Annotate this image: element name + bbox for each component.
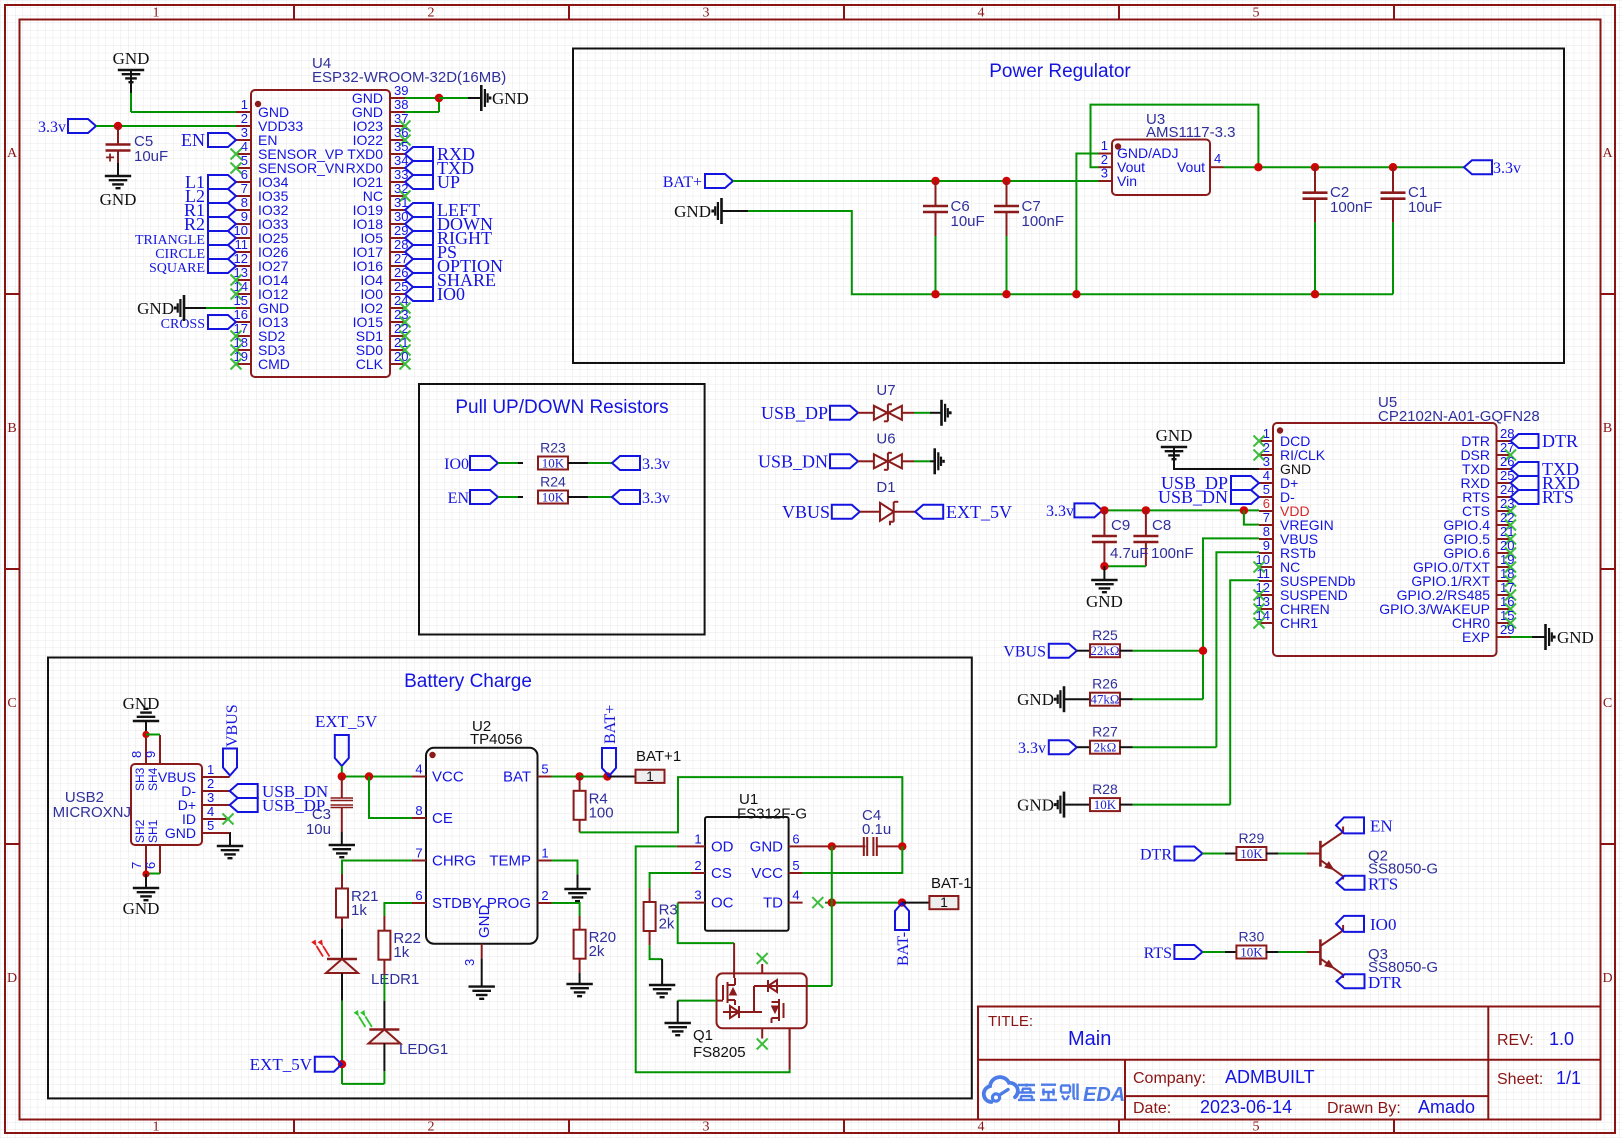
svg-text:EDA: EDA: [1083, 1084, 1125, 1106]
svg-text:6: 6: [415, 888, 422, 903]
svg-text:R30: R30: [1239, 929, 1265, 945]
svg-text:18: 18: [234, 335, 248, 350]
svg-text:R27: R27: [1092, 724, 1118, 740]
svg-text:1: 1: [1101, 138, 1108, 153]
svg-text:B: B: [7, 421, 16, 436]
svg-text:2: 2: [541, 888, 548, 903]
svg-text:5: 5: [1263, 482, 1270, 497]
svg-text:1: 1: [1263, 426, 1270, 441]
svg-text:GND: GND: [123, 899, 160, 918]
svg-text:9: 9: [241, 209, 248, 224]
svg-text:1k: 1k: [351, 902, 367, 919]
svg-text:16: 16: [234, 307, 248, 322]
svg-text:10uF: 10uF: [1408, 199, 1442, 216]
svg-text:SQUARE: SQUARE: [149, 261, 205, 276]
svg-text:R28: R28: [1092, 781, 1118, 797]
svg-text:REV:: REV:: [1497, 1032, 1534, 1049]
svg-text:10K: 10K: [1094, 797, 1117, 812]
svg-text:4: 4: [1263, 468, 1270, 483]
svg-text:2: 2: [694, 858, 701, 873]
svg-text:TD: TD: [763, 895, 783, 912]
svg-text:OD: OD: [711, 838, 734, 855]
svg-text:4: 4: [1214, 151, 1221, 166]
svg-text:B: B: [1603, 421, 1612, 436]
svg-text:USB_DN: USB_DN: [758, 451, 828, 471]
svg-text:EXP: EXP: [1462, 629, 1490, 645]
svg-text:3: 3: [241, 125, 248, 140]
svg-text:SS8050-G: SS8050-G: [1368, 861, 1438, 878]
svg-text:TITLE:: TITLE:: [988, 1013, 1033, 1030]
svg-text:1: 1: [241, 97, 248, 112]
svg-text:4: 4: [978, 6, 985, 21]
svg-text:VBUS: VBUS: [782, 502, 830, 522]
svg-text:SH1: SH1: [146, 819, 160, 843]
svg-text:8: 8: [241, 195, 248, 210]
svg-text:Drawn By:: Drawn By:: [1327, 1100, 1401, 1117]
svg-text:GND: GND: [137, 299, 174, 318]
svg-text:GND: GND: [492, 89, 529, 108]
svg-text:GND: GND: [1557, 628, 1594, 647]
svg-text:5: 5: [1253, 1120, 1260, 1135]
svg-text:Q1: Q1: [693, 1027, 713, 1044]
svg-text:100nF: 100nF: [1022, 213, 1065, 230]
svg-text:CLK: CLK: [356, 356, 384, 372]
svg-text:0.1u: 0.1u: [862, 821, 891, 838]
svg-text:D: D: [1602, 971, 1612, 986]
svg-text:U6: U6: [876, 430, 895, 447]
svg-text:EN: EN: [448, 490, 470, 507]
svg-text:7: 7: [241, 181, 248, 196]
svg-text:Battery Charge: Battery Charge: [404, 671, 532, 692]
svg-text:1: 1: [541, 846, 548, 861]
svg-text:5: 5: [207, 818, 214, 833]
svg-text:VCC: VCC: [432, 769, 464, 786]
svg-text:EXT_5V: EXT_5V: [250, 1055, 313, 1074]
svg-text:GND: GND: [165, 825, 196, 841]
svg-text:Amado: Amado: [1418, 1097, 1475, 1117]
svg-text:+: +: [105, 150, 114, 167]
svg-text:9: 9: [143, 751, 158, 758]
svg-text:EN: EN: [1370, 817, 1393, 836]
svg-text:BAT-: BAT-: [895, 932, 912, 966]
svg-text:Vout: Vout: [1177, 159, 1205, 175]
svg-text:EXT_5V: EXT_5V: [946, 502, 1012, 522]
svg-text:22kΩ: 22kΩ: [1090, 643, 1119, 658]
svg-text:19: 19: [234, 349, 248, 364]
svg-text:4: 4: [792, 888, 799, 903]
svg-text:1: 1: [646, 768, 654, 784]
svg-text:100: 100: [589, 804, 614, 821]
svg-text:3: 3: [1101, 166, 1108, 181]
svg-text:100nF: 100nF: [1330, 199, 1373, 216]
svg-text:2: 2: [428, 1120, 435, 1135]
svg-text:R25: R25: [1092, 627, 1118, 643]
svg-text:14: 14: [234, 279, 248, 294]
svg-text:EXT_5V: EXT_5V: [315, 712, 378, 731]
svg-text:USB_DP: USB_DP: [761, 403, 828, 423]
svg-text:R2: R2: [184, 214, 205, 234]
svg-text:2: 2: [1263, 440, 1270, 455]
svg-text:2k: 2k: [659, 916, 675, 933]
svg-text:10K: 10K: [1240, 945, 1263, 960]
svg-text:2k: 2k: [589, 943, 605, 960]
svg-text:3: 3: [462, 959, 477, 966]
svg-text:R23: R23: [540, 440, 566, 456]
svg-text:1k: 1k: [393, 944, 409, 961]
svg-text:2: 2: [241, 111, 248, 126]
svg-text:C9: C9: [1111, 517, 1130, 534]
svg-text:ESP32-WROOM-32D(16MB): ESP32-WROOM-32D(16MB): [312, 69, 506, 86]
svg-text:LEDG1: LEDG1: [399, 1041, 448, 1058]
svg-text:3: 3: [703, 6, 710, 21]
svg-text:GND: GND: [100, 190, 137, 209]
svg-text:11: 11: [1257, 566, 1271, 581]
svg-text:3.3v: 3.3v: [1018, 740, 1046, 757]
svg-text:39: 39: [394, 83, 408, 98]
svg-text:CE: CE: [432, 810, 453, 827]
svg-text:FS8205: FS8205: [693, 1044, 746, 1061]
svg-text:A: A: [7, 146, 18, 161]
svg-text:GND: GND: [674, 202, 711, 221]
svg-text:7: 7: [1263, 510, 1270, 525]
svg-text:6: 6: [143, 862, 158, 869]
svg-text:BAT-1: BAT-1: [931, 875, 972, 892]
svg-text:7: 7: [415, 846, 422, 861]
svg-text:TEMP: TEMP: [489, 853, 531, 870]
svg-text:5: 5: [792, 858, 799, 873]
svg-text:8: 8: [415, 803, 422, 818]
svg-text:GND: GND: [1156, 426, 1193, 445]
svg-text:Company:: Company:: [1133, 1070, 1206, 1087]
svg-text:3.3v: 3.3v: [1493, 160, 1521, 177]
svg-text:7: 7: [129, 862, 144, 869]
svg-text:VCC: VCC: [751, 865, 783, 882]
svg-text:STDBY: STDBY: [432, 895, 482, 912]
svg-text:29: 29: [1500, 622, 1514, 637]
svg-text:2: 2: [428, 6, 435, 21]
svg-text:C: C: [7, 696, 16, 711]
svg-text:CP2102N-A01-GQFN28: CP2102N-A01-GQFN28: [1378, 408, 1540, 425]
svg-text:PROG: PROG: [487, 895, 531, 912]
svg-text:EN: EN: [181, 130, 205, 150]
svg-text:Power Regulator: Power Regulator: [989, 61, 1131, 82]
svg-text:1/1: 1/1: [1556, 1068, 1581, 1088]
svg-text:MICROXNJ: MICROXNJ: [53, 804, 131, 821]
svg-text:TP4056: TP4056: [470, 731, 523, 748]
svg-text:1: 1: [694, 831, 701, 846]
svg-text:GND: GND: [1086, 592, 1123, 611]
svg-text:DTR: DTR: [1140, 847, 1172, 864]
svg-text:R29: R29: [1239, 830, 1265, 846]
svg-text:1: 1: [207, 762, 214, 777]
svg-text:1: 1: [153, 1120, 160, 1135]
svg-text:10uF: 10uF: [134, 148, 168, 165]
svg-text:10K: 10K: [542, 490, 565, 505]
svg-text:5: 5: [241, 153, 248, 168]
svg-text:1: 1: [153, 6, 160, 21]
svg-text:3.3v: 3.3v: [38, 119, 66, 136]
svg-text:10u: 10u: [306, 821, 331, 838]
svg-text:6: 6: [1263, 496, 1270, 511]
svg-text:SH3: SH3: [133, 767, 147, 791]
svg-text:Date:: Date:: [1133, 1100, 1171, 1117]
svg-text:GND: GND: [476, 905, 493, 939]
svg-text:A: A: [1602, 146, 1613, 161]
svg-text:TRIANGLE: TRIANGLE: [135, 233, 205, 248]
svg-text:10K: 10K: [1240, 846, 1263, 861]
svg-text:GND: GND: [1017, 796, 1054, 815]
svg-text:CMD: CMD: [258, 356, 290, 372]
svg-text:3.3v: 3.3v: [1046, 503, 1074, 520]
svg-text:C8: C8: [1152, 517, 1171, 534]
svg-text:3: 3: [694, 888, 701, 903]
svg-text:3.3v: 3.3v: [642, 456, 670, 473]
svg-text:ADMBUILT: ADMBUILT: [1225, 1067, 1315, 1087]
svg-text:R24: R24: [540, 474, 566, 490]
svg-text:SH2: SH2: [133, 819, 147, 843]
svg-text:BAT+: BAT+: [602, 705, 619, 744]
svg-text:Pull UP/DOWN Resistors: Pull UP/DOWN Resistors: [455, 397, 668, 418]
svg-text:CS: CS: [711, 865, 732, 882]
svg-text:CIRCLE: CIRCLE: [155, 247, 205, 262]
svg-text:SH4: SH4: [146, 767, 160, 791]
svg-text:FS312F-G: FS312F-G: [737, 806, 807, 823]
svg-text:Main: Main: [1068, 1028, 1111, 1050]
svg-text:4: 4: [978, 1120, 985, 1135]
svg-text:UP: UP: [437, 172, 460, 192]
svg-text:4: 4: [207, 804, 214, 819]
svg-text:1.0: 1.0: [1549, 1029, 1574, 1049]
svg-text:Vin: Vin: [1117, 173, 1137, 189]
svg-text:U7: U7: [876, 382, 895, 399]
svg-text:CHRG: CHRG: [432, 853, 476, 870]
svg-text:RTS: RTS: [1144, 945, 1172, 962]
svg-text:IO0: IO0: [437, 284, 465, 304]
svg-text:2023-06-14: 2023-06-14: [1200, 1097, 1292, 1117]
svg-text:DTR: DTR: [1542, 431, 1578, 451]
svg-text:6: 6: [792, 831, 799, 846]
svg-text:2: 2: [207, 776, 214, 791]
svg-text:USB_DN: USB_DN: [1158, 487, 1228, 507]
svg-text:38: 38: [394, 97, 408, 112]
svg-text:RTS: RTS: [1542, 487, 1574, 507]
svg-text:1: 1: [940, 894, 948, 910]
svg-text:BAT: BAT: [503, 769, 531, 786]
svg-text:2kΩ: 2kΩ: [1094, 740, 1117, 755]
svg-text:BAT+1: BAT+1: [636, 748, 681, 765]
svg-text:BAT+: BAT+: [663, 174, 702, 191]
svg-text:GND: GND: [123, 694, 160, 713]
svg-text:5: 5: [541, 762, 548, 777]
svg-text:C: C: [1603, 696, 1612, 711]
svg-text:GND: GND: [113, 49, 150, 68]
svg-text:3: 3: [207, 790, 214, 805]
svg-text:D1: D1: [876, 479, 895, 496]
svg-text:4.7uF: 4.7uF: [1110, 545, 1148, 562]
svg-text:AMS1117-3.3: AMS1117-3.3: [1146, 124, 1236, 141]
svg-text:3: 3: [1263, 454, 1270, 469]
svg-text:8: 8: [1263, 524, 1270, 539]
svg-text:47kΩ: 47kΩ: [1090, 692, 1119, 707]
svg-text:6: 6: [241, 167, 248, 182]
svg-text:100nF: 100nF: [1151, 545, 1194, 562]
svg-text:R26: R26: [1092, 676, 1118, 692]
svg-text:11: 11: [235, 237, 249, 252]
svg-text:9: 9: [1263, 538, 1270, 553]
svg-text:OC: OC: [711, 895, 734, 912]
svg-text:GND: GND: [1017, 690, 1054, 709]
svg-text:VBUS: VBUS: [224, 704, 241, 747]
svg-text:8: 8: [129, 751, 144, 758]
svg-text:CHR1: CHR1: [1280, 615, 1318, 631]
svg-text:IO0: IO0: [1370, 915, 1396, 934]
svg-text:D: D: [7, 971, 17, 986]
svg-text:4: 4: [415, 762, 422, 777]
svg-text:10uF: 10uF: [951, 213, 985, 230]
svg-text:IO0: IO0: [444, 456, 469, 473]
svg-text:3.3v: 3.3v: [642, 490, 670, 507]
svg-text:4: 4: [241, 139, 248, 154]
svg-text:LEDR1: LEDR1: [371, 971, 419, 988]
svg-text:SS8050-G: SS8050-G: [1368, 959, 1438, 976]
svg-text:Sheet:: Sheet:: [1497, 1071, 1543, 1088]
svg-text:15: 15: [234, 293, 248, 308]
svg-text:10K: 10K: [542, 456, 565, 471]
svg-text:3: 3: [703, 1120, 710, 1135]
svg-text:GND: GND: [750, 838, 784, 855]
svg-text:VBUS: VBUS: [1003, 644, 1046, 661]
svg-text:5: 5: [1253, 6, 1260, 21]
